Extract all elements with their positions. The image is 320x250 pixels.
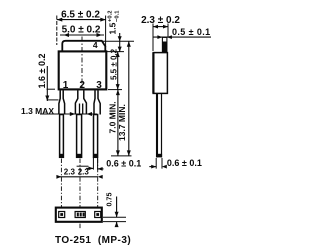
svg-text:2.3 ± 0.2: 2.3 ± 0.2: [141, 15, 180, 26]
svg-text:3: 3: [96, 80, 102, 91]
svg-text:0.5 ± 0.1: 0.5 ± 0.1: [172, 27, 211, 37]
svg-text:+0.2: +0.2: [108, 11, 114, 22]
svg-text:6.5 ± 0.2: 6.5 ± 0.2: [61, 10, 100, 21]
svg-text:−0.1: −0.1: [114, 10, 120, 22]
svg-text:0.6 ± 0.1: 0.6 ± 0.1: [106, 159, 141, 169]
svg-text:2.3: 2.3: [64, 167, 76, 176]
svg-text:4: 4: [93, 40, 98, 50]
svg-text:0.6 ± 0.1: 0.6 ± 0.1: [167, 158, 202, 168]
svg-text:1.5: 1.5: [108, 22, 118, 34]
svg-text:TO-251 (MP-3): TO-251 (MP-3): [55, 235, 131, 246]
svg-text:13.7 MIN.: 13.7 MIN.: [117, 104, 127, 141]
svg-text:2: 2: [79, 80, 85, 91]
svg-text:0.75: 0.75: [105, 193, 114, 207]
svg-text:2.3: 2.3: [78, 167, 90, 176]
svg-text:1: 1: [63, 80, 69, 91]
svg-text:1.6 ± 0.2: 1.6 ± 0.2: [37, 54, 47, 89]
svg-text:7.0 MIN.: 7.0 MIN.: [108, 101, 118, 133]
